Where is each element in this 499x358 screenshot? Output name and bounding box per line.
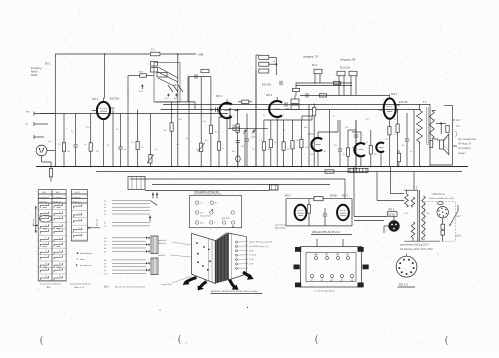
svg-text:2: 2 (45, 211, 46, 213)
tube RÖ5 EZ80 label (388, 209, 398, 217)
svg-text:RÖ 4: RÖ 4 (342, 195, 348, 198)
wire vertical (177, 54, 179, 167)
node RÖ 1-5 label (398, 283, 416, 288)
svg-text:,: , (321, 342, 322, 346)
tube RÖ1 ECH81 (92, 97, 120, 167)
resistor R30 subckt (314, 197, 323, 201)
svg-text:8k: 8k (215, 132, 217, 134)
svg-text:BU2 BU1: BU2 BU1 (222, 218, 231, 220)
resistor R8 (198, 79, 205, 167)
node scan mark 3 (315, 334, 322, 346)
capacitor C9 (285, 102, 287, 106)
node Ant labels (26, 111, 30, 127)
resistor R13 (269, 120, 272, 167)
svg-text:Ausgang „TA“: Ausgang „TA“ (303, 55, 319, 59)
svg-text:RÖ 2: RÖ 2 (216, 94, 223, 98)
node PSU caption (400, 244, 433, 251)
wire heater line (145, 190, 270, 192)
svg-text:Drucktaste 2: Drucktaste 2 (53, 196, 63, 199)
resistor R27 (302, 116, 312, 120)
transformer T2 winding topleft (405, 194, 409, 208)
node tableA caption (40, 282, 61, 289)
resistor R10 (217, 117, 220, 167)
svg-text:Sk 5: Sk 5 (104, 285, 109, 288)
resistor R11 (236, 110, 239, 167)
capacitor C13 trimmer (251, 128, 257, 139)
tube RÖ4b (330, 195, 349, 221)
svg-text:+AB: +AB (198, 53, 204, 57)
wire AM signal line (40, 113, 228, 115)
svg-text:RÖ 3: RÖ 3 (308, 133, 314, 136)
svg-text:RÖ 1: RÖ 1 (92, 97, 99, 101)
capacitor C7 47n (165, 94, 170, 101)
wire vertical (127, 76, 129, 167)
wire fan switch wipers (158, 67, 178, 86)
capacitor C6 grid RÖ2 (212, 107, 220, 111)
svg-text:Sk 1: Sk 1 (174, 85, 179, 87)
svg-text:Skala (w): Skala (w) (158, 243, 167, 245)
component heater end box (270, 185, 279, 190)
svg-text:Drucktasten-Stellung: Drucktasten-Stellung (70, 282, 91, 285)
switch mains (449, 205, 458, 226)
svg-text:EM 80: EM 80 (330, 196, 337, 198)
resistor R14 (282, 120, 285, 167)
svg-text:5: 5 (338, 206, 339, 208)
svg-text:R 1: R 1 (151, 49, 155, 52)
svg-text:22k: 22k (345, 127, 348, 129)
svg-text:Sk 2: Sk 2 (56, 192, 61, 194)
svg-text:7: 7 (45, 242, 46, 244)
svg-text:5: 5 (45, 229, 46, 231)
component panel inner (306, 253, 356, 282)
svg-text:RÖ 3: RÖ 3 (266, 93, 273, 97)
switch Sk1 contacts (168, 85, 183, 92)
svg-text:11: 11 (59, 268, 61, 270)
svg-text:(Ruhelage): (Ruhelage) (275, 228, 286, 230)
resistor R12 (262, 120, 265, 167)
wire cable group3 (104, 236, 158, 254)
connector panel bottom row (310, 275, 354, 283)
svg-text:geschlossen: geschlossen (80, 265, 92, 267)
svg-text:5: 5 (59, 229, 60, 231)
svg-text:weiß/rot: weiß/rot (158, 254, 166, 257)
svg-text:1n: 1n (394, 119, 396, 121)
svg-text:47k: 47k (176, 144, 179, 146)
svg-text:10: 10 (45, 263, 47, 265)
svg-text:47n: 47n (203, 121, 206, 123)
wire drop to PSU c (413, 172, 415, 191)
wire cable group2 (104, 216, 151, 228)
svg-text:Sk 3: Sk 3 (75, 192, 80, 194)
svg-text:3n: 3n (186, 138, 188, 140)
junction dots ground bus (63, 166, 421, 168)
node scan mark 4 (445, 335, 449, 346)
resistor R24 stack (259, 55, 277, 59)
node misc value labels (48, 115, 436, 156)
wire cable group4 (104, 258, 158, 276)
connector TA (314, 69, 322, 83)
connector RÖ socket bottom view (396, 254, 417, 277)
wire vertical (255, 70, 257, 167)
wire af rail b (300, 94, 389, 96)
resistor R35 (334, 81, 341, 84)
svg-text:T 2: T 2 (414, 186, 418, 190)
component chassis left panel (192, 233, 216, 283)
svg-text:4: 4 (296, 206, 297, 208)
tube RÖ2a (285, 195, 306, 221)
svg-text:Kontaktpaare: Kontaktpaare (80, 252, 93, 255)
svg-text:weitere (Punkt) ausgeschl.: weitere (Punkt) ausgeschl. (249, 241, 273, 244)
junction dots rail (171, 104, 399, 111)
node Sk4 arrow (33, 206, 37, 233)
svg-text:T 1: T 1 (423, 100, 427, 104)
resistor R33 (293, 88, 300, 95)
resistor R21 cathode RÖ4 (388, 127, 391, 135)
svg-text:„AM“: „AM“ (46, 286, 51, 289)
transformer T1 primary (417, 104, 423, 166)
svg-text:Empfang: Empfang (31, 66, 42, 70)
wire vertical (112, 110, 114, 167)
node cable caption (104, 285, 145, 288)
resistor R2 below jack (42, 156, 53, 182)
transformer T2 core (418, 190, 420, 241)
wire lower bus 3 (130, 178, 345, 180)
svg-text:NV-Ausg. 2×: NV-Ausg. 2× (458, 143, 472, 146)
svg-text:25n: 25n (267, 149, 270, 151)
svg-text:Drucktaste 1: Drucktaste 1 (39, 196, 49, 199)
wire osc rail (188, 76, 211, 110)
wire osc section (189, 69, 211, 79)
wire anode RÖ1 (104, 54, 105, 98)
svg-text:8: 8 (45, 250, 46, 252)
capacitor C14 (354, 130, 358, 167)
svg-text:gezeichnete Stellung 220 V: gezeichnete Stellung 220 V (400, 244, 430, 247)
svg-text:ECH 81: ECH 81 (262, 83, 272, 87)
component tuner block frame (154, 63, 180, 103)
node scan mark 1 (40, 335, 44, 346)
speaker L1 (440, 134, 449, 154)
svg-text:6: 6 (283, 114, 284, 116)
resistor R1 on supply rail (150, 49, 160, 56)
node arrow s2 (230, 280, 239, 290)
wire grid rail (163, 103, 430, 105)
svg-text:11: 11 (45, 268, 47, 270)
component panel mount tab 1 (295, 247, 301, 252)
fuse F1 (441, 218, 445, 241)
wire vertical (188, 77, 190, 167)
svg-text:Ant: Ant (26, 111, 30, 114)
node dots x230 (229, 108, 231, 129)
wire y120.6 seg (264, 119, 302, 121)
svg-text:2: 2 (98, 105, 99, 107)
resistor R5 (136, 110, 139, 167)
svg-text:8: 8 (59, 250, 60, 252)
component chassis spine (215, 233, 228, 284)
capacitor C1 (73, 114, 78, 167)
transformer T1 label (423, 100, 427, 104)
wire HT distribution rail (161, 109, 421, 111)
node Empfang label (31, 63, 51, 77)
component panel outer (301, 247, 362, 288)
wire T2 bottom (404, 240, 440, 242)
svg-text:5k: 5k (287, 149, 289, 151)
svg-text:...ung (Füße): ...ung (Füße) (160, 284, 172, 286)
svg-text:Stellung 3: Stellung 3 (73, 200, 81, 203)
wire vertical (329, 110, 331, 167)
node legend (76, 252, 94, 267)
svg-text:BU3 BU4: BU3 BU4 (340, 67, 351, 70)
svg-text:RÖ 4: RÖ 4 (391, 92, 398, 96)
svg-text:10: 10 (59, 263, 61, 265)
resistor R25 stack (259, 62, 278, 66)
resistor R3 (62, 114, 65, 167)
wire lower bus 4 (152, 184, 330, 186)
resistor R26 stack (256, 55, 277, 73)
node scan mark 2 (178, 334, 187, 345)
component panel mount tab 3 (295, 283, 301, 288)
svg-text:3: 3 (59, 217, 60, 219)
tube RÖ5 socket (384, 216, 400, 233)
resistor R32 top (238, 100, 252, 103)
wire vertical (355, 120, 357, 167)
svg-text:BN 1: BN 1 (45, 63, 51, 66)
wire antenna stub a (34, 112, 55, 116)
svg-text:1k: 1k (274, 142, 276, 144)
svg-text:1M: 1M (96, 151, 99, 153)
node panel caption (314, 290, 336, 293)
node Ausgang TA label (303, 55, 319, 68)
capacitor C2 (118, 114, 123, 167)
svg-text:17 (kca): 17 (kca) (249, 255, 257, 257)
transformer T2 secondary (422, 196, 426, 240)
capacitor C11 subckt (323, 208, 327, 226)
svg-text:6: 6 (45, 237, 46, 239)
table Sk3 (71, 190, 100, 241)
svg-text:10k: 10k (163, 130, 166, 132)
resistor R18 (346, 130, 349, 167)
component connector comb (348, 168, 368, 172)
svg-text:pu: pu (340, 281, 342, 283)
svg-text:(2a7): (2a7) (456, 236, 462, 238)
svg-text:mit UKW-Verzög. (7u): mit UKW-Verzög. (7u) (249, 245, 269, 248)
wire PSU links (354, 167, 387, 221)
wire t5 top link (352, 132, 361, 138)
svg-text:2n: 2n (84, 144, 86, 146)
svg-text:STEUERPLATINE (M): STEUERPLATINE (M) (194, 191, 219, 194)
svg-text:RÖ 5: RÖ 5 (389, 209, 395, 212)
wire x356 seg (348, 120, 356, 130)
svg-text:4: 4 (79, 228, 80, 230)
wire ground bus main (36, 166, 468, 168)
svg-text:1: 1 (221, 104, 222, 106)
svg-text:2a 7: 2a 7 (456, 119, 461, 122)
wire t4 top link (318, 120, 338, 132)
wire cluster drop (256, 70, 276, 167)
svg-text:9: 9 (59, 255, 60, 257)
resistor R16 (300, 120, 303, 167)
wire IF line y128.7 (228, 128, 268, 130)
svg-text:Sk1 auf: Sk1 auf (97, 219, 99, 226)
component panel mount tab 2 (358, 247, 364, 252)
node chassis left labels (158, 239, 192, 286)
svg-text:C123: C123 (251, 137, 256, 139)
component mains dropper box (128, 177, 145, 190)
svg-text:(7)8u: (7)8u (249, 250, 254, 252)
tube RÖ4 EL84 (379, 92, 409, 166)
resistor R17 (313, 104, 316, 166)
wire vertical (413, 110, 415, 167)
svg-text:gezeichnet: gezeichnet (275, 224, 286, 227)
node mains text (429, 194, 454, 200)
svg-text:ANSICHT GEDRUCKTE SCHALTUNG: ANSICHT GEDRUCKTE SCHALTUNG auf Folie (211, 290, 259, 293)
wire T2 top (404, 190, 418, 193)
node Steuerplatine title (194, 191, 223, 194)
svg-text:Welle: Welle (31, 73, 38, 77)
wire vertical (429, 104, 431, 166)
tube diode half (376, 143, 384, 167)
svg-text:ABGLEICHPLAN Rf 21.2: ABGLEICHPLAN Rf 21.2 (312, 231, 341, 234)
svg-text:EZ 80: EZ 80 (389, 214, 396, 216)
component mains socket area (425, 202, 456, 242)
svg-text:gnd: gnd (350, 281, 353, 283)
svg-text:5n: 5n (343, 154, 345, 156)
wire antenna stub b (34, 122, 48, 126)
svg-text:co: co (310, 281, 312, 283)
component panel mount tab 5 (294, 265, 300, 270)
inductor L2 (157, 73, 167, 78)
node arrow sw (183, 278, 197, 286)
svg-text:7: 7 (59, 242, 60, 244)
component Steuerplatine board (189, 196, 241, 228)
svg-text:6: 6 (59, 237, 60, 239)
svg-text:9: 9 (45, 255, 46, 257)
table Drucktasten Sk1/Sk2 (33, 190, 66, 281)
svg-text:1: 1 (45, 204, 46, 206)
svg-text:Sk4 auf: Sk4 auf (33, 218, 35, 226)
capacitor C12 trimmer (243, 128, 248, 167)
svg-text:ECH 81: ECH 81 (110, 97, 120, 101)
svg-text:2M: 2M (241, 146, 244, 148)
node pin dot (139, 85, 143, 93)
svg-text:Sk 1: Sk 1 (42, 192, 47, 194)
svg-text:8n: 8n (402, 145, 404, 147)
svg-text:2: 2 (271, 102, 272, 104)
transformer T1 core (427, 107, 429, 143)
node tableB caption (70, 282, 91, 289)
resistor R19 (369, 130, 372, 167)
tube RÖ4a triode (354, 138, 365, 167)
svg-text:7: 7 (109, 116, 110, 118)
svg-text:Netzanschlußbuchse (F2): Netzanschlußbuchse (F2) (429, 197, 454, 200)
resistor R7 (170, 102, 173, 167)
svg-text:2: 2 (59, 211, 60, 213)
resistor R31 (232, 125, 239, 131)
node misc pin numbers (98, 100, 397, 208)
node +AB label (198, 53, 204, 57)
component Steuerplatine test points (195, 201, 234, 227)
resistor R15 (291, 120, 294, 167)
capacitor C5 (405, 113, 410, 167)
wire af rail a (296, 82, 352, 86)
svg-text:aussen: aussen (458, 153, 466, 155)
wire subckt top (286, 199, 352, 226)
wire lower bus 2 (96, 171, 462, 173)
svg-text:Ausgang „TB“: Ausgang „TB“ (340, 58, 356, 62)
resistor R20 (396, 110, 399, 167)
capacitor C15 (306, 93, 308, 97)
resistor R22 (397, 150, 400, 167)
wire top supply rail +AB (55, 53, 196, 55)
node arrow se (243, 272, 254, 280)
transformer T2 label (414, 186, 418, 190)
svg-text:2a 7: 2a 7 (457, 216, 462, 218)
svg-text:Ansicht von hinten (Drahtseite: Ansicht von hinten (Drahtseite) (115, 285, 145, 288)
inductor L1 (151, 62, 158, 73)
svg-text:1M: 1M (323, 151, 326, 153)
svg-text:7: 7 (383, 100, 384, 102)
wire drop to PSU a (377, 172, 404, 201)
component chassis right panel (229, 233, 247, 280)
node chassis right labels (238, 241, 273, 269)
svg-text:5n: 5n (124, 149, 126, 151)
wire left vertical bus (54, 54, 56, 167)
svg-text:1,2k: 1,2k (178, 119, 182, 121)
svg-text:(Beta u. J): (Beta u. J) (74, 286, 84, 289)
wire vertical (308, 104, 310, 166)
svg-text:1: 1 (79, 204, 80, 206)
resistor R28 (325, 170, 334, 173)
wire block bottom (155, 102, 195, 110)
svg-text:bei Netzspg. 110V, 127V, 220V: bei Netzspg. 110V, 127V, 220V (400, 248, 433, 251)
inductor L3 oval (236, 141, 241, 167)
svg-text:Haupt-Platte: Haupt-Platte (200, 214, 211, 217)
component chassis solder points (196, 241, 237, 271)
node PSU volt labels (404, 213, 430, 246)
svg-text:12: 12 (45, 276, 47, 278)
svg-text:3: 3 (45, 217, 46, 219)
component IF detail x291-300 (291, 95, 299, 109)
component panel mount tab 6 (363, 265, 369, 270)
svg-text:5: 5 (79, 234, 80, 236)
svg-text:2k: 2k (155, 149, 157, 151)
svg-text:9: 9 (233, 115, 234, 117)
capacitor C8 4n7 (174, 94, 179, 101)
capacitor C4 (338, 120, 343, 167)
resistor R29 subckt (307, 199, 310, 226)
connector BU1 antenna jack (36, 145, 55, 156)
node arrow s1 (198, 282, 207, 291)
capacitor C16 (280, 81, 296, 89)
transformer T2 primary lower (411, 222, 415, 241)
node subckt note (275, 224, 286, 230)
svg-text:9: 9 (396, 112, 397, 114)
svg-text:BU 2: BU 2 (312, 64, 318, 67)
node side text (456, 216, 462, 238)
svg-text:50n: 50n (334, 145, 337, 147)
resistor R34 (320, 94, 327, 97)
node chassis caption (211, 290, 263, 293)
wire drop x356 (355, 167, 357, 172)
connector panel top row (314, 253, 350, 260)
resistor R23 left feed (128, 72, 154, 78)
svg-text:co antenne gnd pickup: co antenne gnd pickup (314, 290, 336, 293)
node output terminal texts (453, 119, 477, 155)
wire panel feeds (317, 239, 343, 247)
svg-text:Anschluß: Anschluß (158, 239, 167, 242)
svg-text:6,3V: 6,3V (404, 213, 409, 215)
svg-text:Drucktasten-Stellung: Drucktasten-Stellung (40, 282, 61, 285)
tube RÖ3b triode (308, 132, 322, 167)
